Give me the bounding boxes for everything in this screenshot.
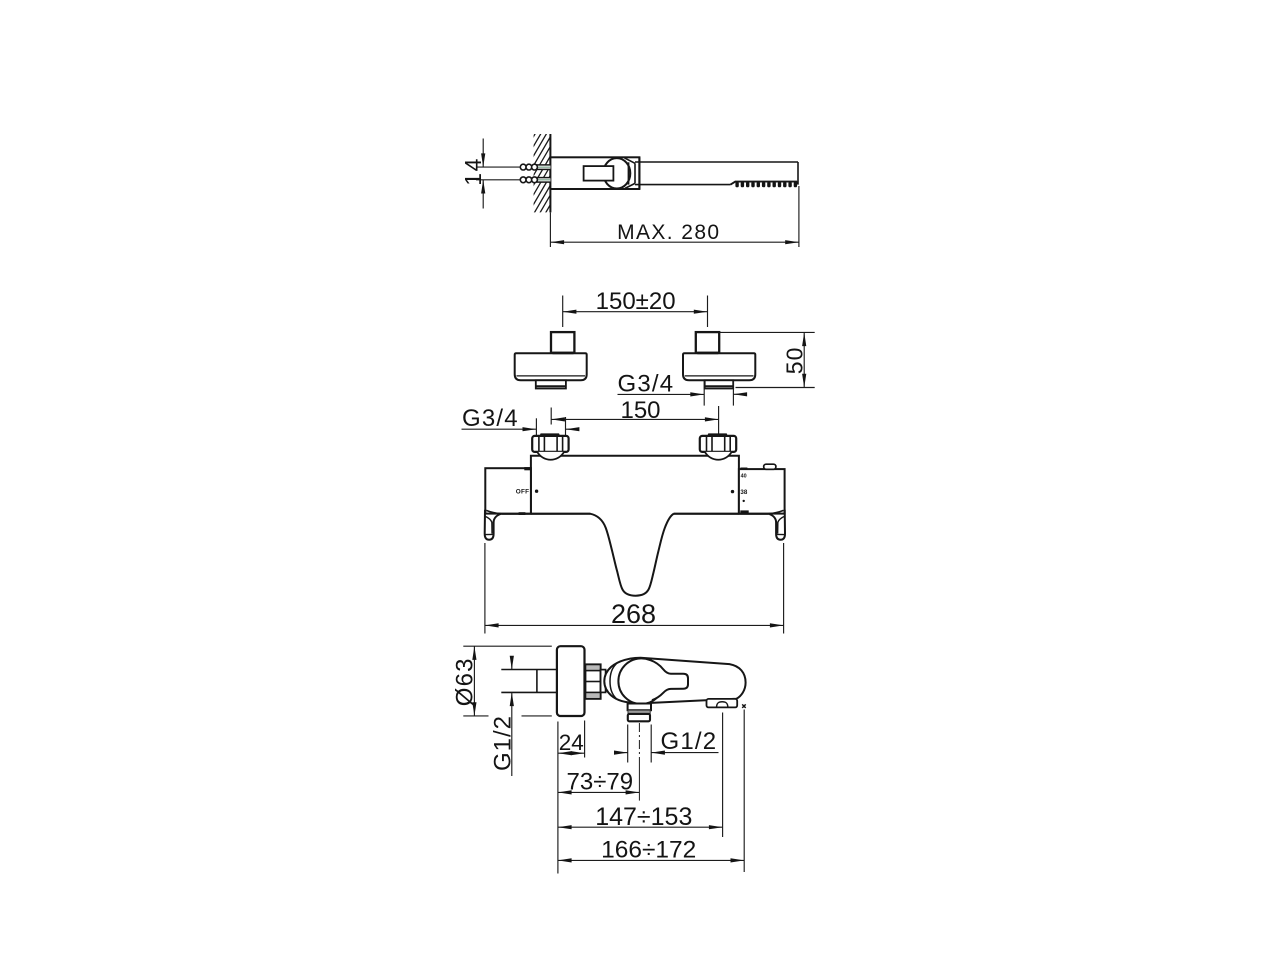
left union tail seam [537,385,566,387]
left foot inner lines [486,517,493,534]
right inlet nut facets [706,436,708,452]
wall reference line [557,722,559,874]
label G1/2 hose left arrow [615,752,628,754]
dimension 268 left extension [484,543,486,634]
left union body [515,353,587,380]
right handle dot [743,500,745,502]
left inlet dome [537,452,564,460]
right union square head [696,332,719,353]
left inlet thread stub [539,433,560,436]
shower slide bar housing [550,157,639,189]
dimension 150±20 right extension [707,296,709,328]
dimension 14 arrow bottom [482,180,484,209]
valve cap circle [618,658,664,704]
dimension MAX. 280 right extension [798,186,800,247]
dimension 24 right extension [584,721,586,758]
dimension 150 line [551,418,718,420]
left handle bottom tick [519,512,526,515]
body temperature dot [731,490,734,493]
svg-text:OFF: OFF [516,489,529,496]
dimension Ø63 bottom extension [463,715,488,717]
dimension 14 extension line top [476,166,520,168]
right union tail seam [705,385,732,387]
left handle index tick [524,467,530,470]
holder knob circle [603,158,630,188]
wall anchor screw top [520,164,550,170]
wall anchor screw bottom [520,177,550,183]
right temperature handle [739,469,785,513]
right inlet dome [705,452,732,460]
dimension 166÷172 right extension [743,710,745,873]
supply pipe collar [536,670,538,693]
svg-text:50: 50 [781,347,807,375]
dimension 14 arrow top [482,139,484,168]
dimension 14 extension line bottom [476,179,520,181]
right handle top tick [740,468,747,470]
right inlet nut [700,436,736,452]
label G3/4 upper leader with arrow [618,393,705,395]
svg-text:150: 150 [620,397,660,424]
hand shower tube top [635,161,798,163]
underside left segment [502,513,591,515]
svg-text:40: 40 [741,474,747,480]
nut-body connector [601,670,606,693]
svg-text:38: 38 [740,489,747,496]
svg-text:G1/2: G1/2 [489,715,516,771]
shell inner arc [610,664,616,699]
hand shower tube bottom [635,184,731,186]
aerator dome [717,702,728,708]
connection hex nut [585,664,600,698]
hose connection nut [628,714,650,721]
spout tip x mark [742,704,746,708]
dimension Ø63 line [473,646,475,716]
dimension 50 line [803,332,805,387]
tube end cap [797,162,799,185]
right handle top button [764,464,776,469]
hose centerline [638,723,640,763]
dimension 268 right extension [783,543,785,634]
dimension 268 line [485,624,784,626]
bracket bevel top [625,158,636,163]
left union body seam [517,375,586,377]
dimension 150±20 left extension [562,296,564,328]
label G3/4 upper counter arrow [733,393,747,395]
lever handle [650,660,689,700]
svg-text:G3/4: G3/4 [618,370,675,397]
wall hatching [528,98,556,262]
body shell outline [604,658,745,703]
dimension 147÷153 line [558,826,723,828]
housing end line [638,157,640,189]
dimension 50 top extension [719,331,815,333]
hex nut facet lines [585,670,600,672]
left diverter handle [485,468,531,513]
spout aerator [707,699,738,708]
left foot [485,510,502,540]
dimension MAX. 280 line [550,241,799,243]
dimension 150 left extension [550,408,552,425]
svg-text:150±20: 150±20 [596,288,676,315]
label G1/2 wall leader bottom arrow [511,692,513,776]
left foot flare top [486,510,501,513]
label G1/2 hose underline with arrow [651,752,718,754]
ratchet ramp [731,182,798,185]
wall face line [549,134,551,212]
bracket neck line [634,163,636,183]
right foot [769,510,786,540]
underside right segment [674,513,768,515]
svg-text:166÷172: 166÷172 [601,836,696,863]
supply pipe top line [501,669,557,671]
dimension 150 right extension [718,406,720,437]
svg-text:24: 24 [559,730,584,755]
svg-text:268: 268 [611,599,656,629]
dimension 50 bottom extension [736,387,815,389]
label G3/4 lower leader with arrow [462,428,537,430]
hose connection collar [628,704,651,711]
hose connection gray band [628,710,650,714]
bracket bevel bottom [625,183,635,188]
nut thread extension lines [535,418,537,436]
svg-text:G1/2: G1/2 [661,728,718,755]
svg-text:MAX. 280: MAX. 280 [617,221,720,244]
dimension 147÷153 right extension [722,713,724,838]
dimension 24 line [558,752,585,754]
right union tail nipple [705,380,734,388]
right union body seam [685,375,754,377]
supply pipe bottom line [501,691,557,693]
svg-text:73÷79: 73÷79 [567,768,634,795]
right foot inner lines [778,517,785,534]
dimension 150±20 line [563,311,708,313]
dimension 166÷172 line [558,859,744,861]
left union tail nipple [536,380,566,388]
knob grip line [628,162,630,184]
ratchet teeth [735,182,797,188]
handle slot [584,166,614,181]
left inlet nut facets [538,436,540,452]
left union square head [551,332,574,353]
right handle bottom tick [740,510,748,513]
svg-text:147÷153: 147÷153 [595,803,692,831]
right inlet thread stub [707,433,728,436]
svg-text:Ø63: Ø63 [452,657,479,706]
spout silhouette U [590,514,674,596]
svg-text:14: 14 [460,157,486,186]
wall flange [557,646,585,716]
label G1/2 wall leader top arrow [511,657,513,670]
right union body [683,353,755,380]
dimension 73÷79 line [558,791,639,793]
svg-text:G3/4: G3/4 [462,405,519,432]
hose extension lines [627,725,629,763]
union tail extension lines [703,381,705,406]
dimension MAX. 280 left extension [549,212,551,247]
left handle index dot [535,490,538,493]
label G3/4 lower counter arrow [566,428,579,430]
mixer body [531,456,739,514]
right foot flare top [769,510,784,513]
left inlet nut [532,436,568,452]
dimension Ø63 top extension [463,645,552,647]
